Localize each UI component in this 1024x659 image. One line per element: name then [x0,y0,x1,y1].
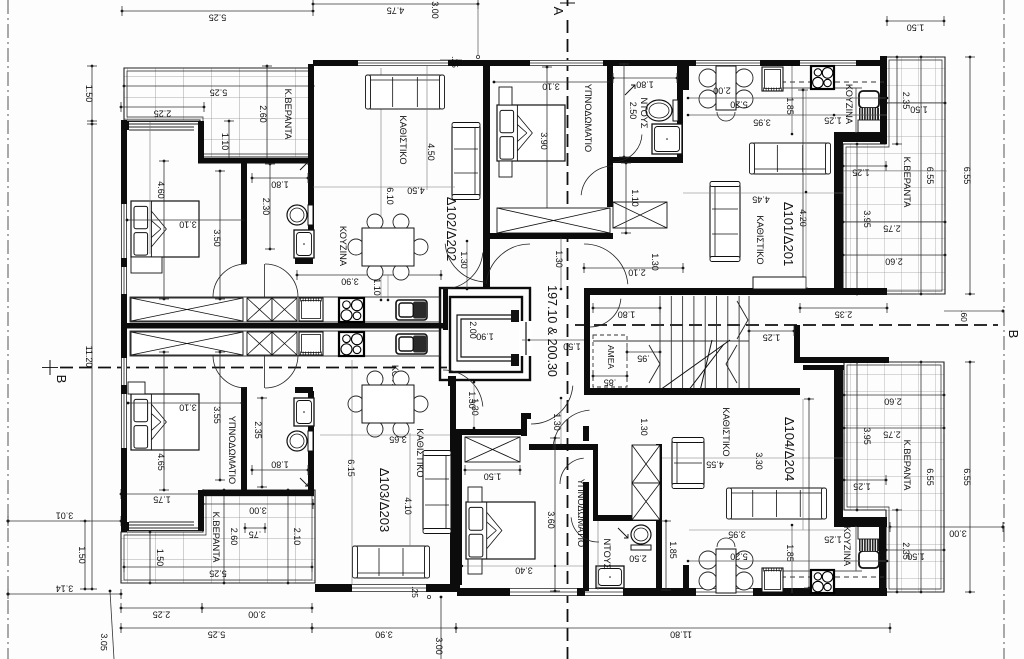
svg-text:6.55: 6.55 [925,468,935,486]
svg-text:3.60: 3.60 [546,511,556,529]
svg-text:1.25: 1.25 [853,482,871,492]
dim 6.55 balcony tr [916,56,935,296]
svg-text:1.50: 1.50 [907,552,925,562]
wall right living D104 [834,370,843,517]
dim 1.80 bath D101 [612,73,679,90]
window top bedroom D101 [530,60,603,66]
dim 5.25 bottom [120,623,314,640]
svg-text:4.55: 4.55 [706,460,724,470]
sofa D101 [750,143,831,174]
svg-text:ΝΤΟΥΣ: ΝΤΟΥΣ [639,97,649,128]
svg-text:2.30: 2.30 [261,198,271,216]
dim 1.50 balcony bottom [145,531,165,585]
window left bedroom bottom [121,394,127,448]
dim 11.80 bottom [455,623,892,640]
wall bath D101 right [677,64,683,163]
wall bottom exterior right part [457,588,887,596]
wall hall D101 vertical [607,163,613,207]
table D101 group [699,69,717,87]
bed D103 [131,394,199,450]
window bedroom D103 top [129,521,194,523]
window bedroom D102 top [129,126,194,128]
wall top exterior [313,60,887,66]
wall top-left wing edge [308,64,314,158]
couch D101 [710,182,740,262]
dim 3.10 bedroom D102 [126,219,246,230]
sink D101 [762,67,783,91]
svg-text:3.14: 3.14 [56,584,74,594]
bed D101 [497,105,565,161]
dim 2.60 balcony br [843,390,946,407]
window bottom D104 c [696,588,753,596]
nightstand D101 a [499,87,512,105]
svg-text:1.75: 1.75 [153,495,171,505]
door arc hall D101 b [584,244,628,284]
dim 6.55 balcony br [916,361,935,594]
svg-text:1.30: 1.30 [459,251,469,269]
wall kitchen D101 left [683,64,689,90]
svg-text:2.75: 2.75 [883,224,901,234]
dim 4.65 bedroom D103 [156,351,169,492]
svg-text:4.20: 4.20 [798,209,808,227]
wall bath D102 right [308,158,314,255]
dim 4.60 bedroom D102 [156,160,169,301]
kitchen counter D104 [762,570,862,572]
svg-text:1.25: 1.25 [824,535,842,545]
svg-text:.25: .25 [410,586,420,598]
nightstand D102 [131,257,162,273]
svg-text:Δ103/Δ203: Δ103/Δ203 [377,468,392,532]
balcony top-left hatch [124,68,313,157]
wall stub bedroom D103 corner [121,522,129,531]
dim 1.25 balcony tr [842,161,888,178]
wall party center to elevator [443,289,448,330]
window left above bed D103 [121,358,127,385]
stove D104 [811,570,834,593]
svg-text:1.80: 1.80 [271,460,289,470]
wall bedroom D104 right stub [583,426,589,441]
svg-text:3.00: 3.00 [430,1,440,19]
dim 6.55 right top [962,56,975,296]
bed D102 [131,201,199,257]
svg-text:B: B [1006,330,1021,339]
dim 6.55 right bottom [962,361,975,594]
door arc bedroom D103 [213,355,246,388]
door arc hall D104 b [553,410,590,450]
wall bedroom D103 bottom/balcony [200,490,313,496]
svg-text:6.55: 6.55 [962,167,972,185]
sink counter D104 [762,568,783,592]
tall cabinet D104 [632,445,660,483]
dim 2.75 balcony tr [842,217,947,234]
sink D104 bath [596,566,624,588]
svg-text:1.50: 1.50 [77,546,87,564]
fridge D101 [858,91,881,133]
dim 1.10 balcony [220,120,234,164]
dim 3.90 bedroom D101 [539,66,552,212]
dim 3.95 balcony br [852,361,872,512]
balcony floor edge D103 [121,530,204,532]
wall party center horizontal [121,323,448,329]
svg-text:1.80: 1.80 [636,80,654,90]
extension line balcony tr [843,170,947,172]
svg-text:1.80: 1.80 [271,180,289,190]
kitchen counter D102 outline [130,297,440,322]
nightstand D104 a [468,487,482,502]
dim 3.50 bedroom D102 [212,170,225,301]
door swing mark D103 bath [300,478,308,486]
table D104 group [699,551,717,569]
svg-text:3.95: 3.95 [862,210,872,228]
dim 2.25 balcony [120,102,206,119]
svg-text:ΚΟΥΖΙΝΑ: ΚΟΥΖΙΝΑ [844,84,854,125]
svg-text:.60: .60 [959,310,969,322]
svg-text:1.30: 1.30 [552,413,562,431]
sink D102 [396,300,427,320]
svg-text:3.10: 3.10 [179,403,197,413]
wall stub bedroom D102 corner [121,121,129,130]
wardrobe D101 [497,208,610,233]
dim 3.10 bedroom D103 [127,402,244,413]
tub D101 bath [652,124,682,154]
svg-text:ΚΑΘΙΣΤΙΚΟ: ΚΑΘΙΣΤΙΚΟ [721,407,731,456]
toilet D101 bath [646,100,678,121]
sink D103 [396,334,427,354]
svg-text:2.25: 2.25 [153,610,171,620]
svg-text:2.35: 2.35 [901,92,911,110]
sofa D103 [353,546,430,578]
entry mat D101 [753,277,806,289]
couch D102 right [452,123,480,200]
svg-text:3.01: 3.01 [56,511,74,521]
wall bedroom D101 right [607,64,613,163]
extension line D103 four10 [409,433,411,546]
dim 4.20 living D101 [798,89,808,290]
wall bath D103 top partial [295,387,313,393]
window left bedroom top [121,204,127,258]
svg-text:3.95: 3.95 [862,427,872,445]
dim 1.50 left bottom [77,520,90,591]
dim 3.05 left bottom [99,590,114,659]
wall step balcony D102 [198,121,204,162]
dim 1.50 top right [886,16,946,33]
wardrobe hall D101 [613,202,667,228]
window top kitchen D101 [696,60,760,66]
dim 3.90 bottom [311,623,458,640]
dim 1.85 bath D104 [661,520,678,592]
wall kitchen D104 left [683,565,689,591]
dim 5.25 balcony bottom [123,562,314,579]
svg-text:ΚΟΥΖΙΝΑ: ΚΟΥΖΙΝΑ [338,226,348,267]
svg-text:2.50: 2.50 [629,554,647,564]
svg-text:Δ101/Δ201: Δ101/Δ201 [781,202,796,266]
svg-text:3.00: 3.00 [434,637,444,655]
armchair D104 [672,438,704,489]
svg-text:2.25: 2.25 [154,109,172,119]
wall step balcony D103 [198,490,204,531]
svg-text:2.75: 2.75 [883,430,901,440]
svg-text:6.15: 6.15 [346,459,356,477]
dim 1.80 stairs [592,303,662,320]
svg-text:1.25: 1.25 [824,116,842,126]
door arc bath D104 [571,517,599,542]
dim 2.60 balcony bottom [219,489,239,585]
dim .95 stairs [626,347,662,364]
wardrobe D104 [465,437,520,462]
svg-text:3.65: 3.65 [389,435,407,445]
dim 3.10 bedroom D101 [493,81,612,92]
dim 3.14 left [7,584,123,600]
door arc corridor D102 b [443,252,483,289]
svg-text:2.60: 2.60 [884,397,902,407]
wall bedroom D104 left [456,429,462,585]
toilet D104 bath [631,525,651,550]
svg-text:ΝΤΟΥΣ: ΝΤΟΥΣ [602,538,612,569]
svg-text:1.90: 1.90 [476,332,494,342]
kitchen counter D103 outline [130,331,440,356]
wall stair landing right [794,325,800,363]
dim 4.75 top [312,0,480,16]
svg-text:4.10: 4.10 [403,497,413,515]
svg-text:1.85: 1.85 [785,97,795,115]
svg-text:1.10: 1.10 [220,133,230,151]
dim 1.25 balcony br [843,475,888,492]
wall bath D103 right [308,391,314,496]
dim 3.00 bottom [201,603,314,620]
dim 11.20 left [84,123,97,591]
dishwasher D102 [299,298,323,321]
svg-text:1.85: 1.85 [785,544,795,562]
door swing mark D101 bath [625,85,635,95]
dim 1.75 bottom-left [120,489,205,505]
stove D103 [339,332,364,356]
window bottom living D103 [352,584,426,592]
svg-text:2.60: 2.60 [258,105,268,123]
extension line D102 bed [149,122,151,254]
nightstand D101 b [499,161,512,177]
dim 3.60 bedroom D104 [546,437,560,593]
wall bath D104 top [593,515,662,521]
fridge D104 [858,526,881,568]
svg-text:5.25: 5.25 [208,630,226,640]
dim 2.60 balcony tr [842,250,947,267]
svg-text:ΚΑΘΙΣΤΙΚΟ: ΚΑΘΙΣΤΙΚΟ [415,428,425,477]
dim .85 stairs [592,371,629,388]
wall bath D104 right [656,444,662,590]
svg-text:1.25: 1.25 [763,333,781,343]
dim 1.50 balcony br [885,545,946,562]
dim 1.25 stairs landing [748,326,796,343]
door swing mark D102 bath [300,162,308,170]
door arc bath D102 [265,264,298,297]
svg-text:3.90: 3.90 [341,277,359,287]
door arc bath D101 [613,135,642,162]
extension line D103 six15 [351,360,353,585]
dim 2.10 balcony bottom [283,489,302,585]
couch D103 [423,451,451,534]
staircase winder marks [649,301,748,383]
svg-text:Κ.ΒΕΡΑΝΤΑ: Κ.ΒΕΡΑΝΤΑ [283,89,293,141]
door arc bedroom D101 [581,166,613,195]
svg-text:3.90: 3.90 [539,132,549,150]
svg-text:11.20: 11.20 [84,346,94,368]
svg-text:11.80: 11.80 [670,630,692,640]
svg-text:2.00: 2.00 [713,86,731,96]
svg-text:2.60: 2.60 [229,528,239,546]
stove D101 [811,66,834,89]
table D103 group [362,385,414,423]
svg-text:3.10: 3.10 [179,220,197,230]
svg-text:1.85: 1.85 [668,541,678,559]
svg-text:1.30: 1.30 [467,391,477,409]
nightstand D104 b [468,559,482,574]
dim 3.00 balcony bottom [202,499,315,516]
elevator shaft [440,288,532,380]
svg-text:3.95: 3.95 [753,118,771,128]
svg-text:1.10: 1.10 [630,189,640,207]
dishwasher D103 [299,332,323,355]
wall stair bottom [584,388,800,395]
property line left [7,0,9,659]
wall D104 entry jog [803,365,844,370]
wall bedroom-bath divider D102 [241,161,247,264]
dim 4.55 vert D104 [804,398,814,590]
svg-text:2.60: 2.60 [885,257,903,267]
dim 3.95 balcony tr [852,143,872,296]
balcony bottom-right hatch [844,362,944,592]
wall bedroom D104 top [456,429,527,435]
svg-text:3.00: 3.00 [248,610,266,620]
balcony bottom-left hatch [121,490,315,583]
dim 2.35 bath D103 [253,397,267,489]
wall right exterior top [880,56,887,144]
wall under balcony D102 [198,158,313,164]
dim 3.00 right [889,522,1005,539]
wall bottom D101 / stair top [584,288,887,295]
svg-text:1.50: 1.50 [84,85,94,103]
svg-text:1.50: 1.50 [907,23,925,33]
wall left exterior [121,120,127,532]
svg-text:3.55: 3.55 [212,406,222,424]
svg-text:1.80: 1.80 [618,310,636,320]
dim 1.10 hall D101 [621,162,640,235]
window left below bed D102 [121,267,127,294]
dim 3.55 bedroom D103 [212,351,225,482]
svg-text:Κ.ΒΕΡΑΝΤΑ: Κ.ΒΕΡΑΝΤΑ [902,440,912,492]
svg-text:1.50: 1.50 [910,105,928,115]
svg-text:2.10: 2.10 [628,268,646,278]
svg-text:3.00: 3.00 [249,506,267,516]
wall D104 north [529,444,593,450]
svg-text:4.50: 4.50 [426,143,436,161]
svg-text:5.25: 5.25 [210,88,228,98]
cabinet XX D103 [247,332,272,355]
dim 2.30 bath D102 [261,163,275,251]
svg-text:Κ.ΒΕΡΑΝΤΑ: Κ.ΒΕΡΑΝΤΑ [902,157,912,209]
svg-text:ΚΑΘΙΣΤΙΚΟ: ΚΑΘΙΣΤΙΚΟ [755,215,765,264]
svg-text:1.50: 1.50 [155,549,165,567]
wall stair left [584,288,590,395]
svg-text:B: B [54,375,69,384]
svg-text:1.50: 1.50 [563,342,581,352]
wall bath D102 bottom partial [295,258,313,264]
wall D102-D101 separation [483,64,490,289]
wardrobe X D102 [131,298,243,321]
property line dots [7,520,10,523]
svg-text:.95: .95 [637,354,650,364]
svg-text:4.45: 4.45 [752,195,770,205]
svg-text:5.25: 5.25 [209,13,227,23]
svg-text:6.55: 6.55 [925,167,935,185]
door arc hall D101 a [486,244,530,284]
cabinet XX D102 [247,298,272,321]
dim 2.35 balcony tr [892,56,911,146]
dim 2.60 balcony [258,65,272,164]
dim 1.50 left top [84,65,97,123]
svg-text:A: A [551,7,566,16]
dim 2.50 bath D101 [619,63,638,159]
svg-text:1.50: 1.50 [484,472,502,482]
table D102 group [362,228,414,266]
nightstand D103 [128,382,145,394]
stove D102 [339,298,364,322]
svg-text:3.10: 3.10 [542,82,560,92]
axis B left [42,360,447,383]
sofa D104 [727,488,827,519]
svg-text:3.90: 3.90 [375,630,393,640]
wall stair right jog [794,357,889,363]
svg-text:1.30: 1.30 [554,250,564,268]
svg-text:.75: .75 [249,530,262,540]
wall corridor D104 jog [521,413,531,419]
wall bedroom D104 right [583,482,589,591]
wall bedroom D101 bottom [487,233,613,239]
sofa D102 top [366,75,445,109]
property line right [1003,0,1005,659]
door arc hall D104 a [531,386,573,424]
svg-text:3.50: 3.50 [212,229,222,247]
toilet D103 bath [287,431,313,451]
svg-text:197.10 & 200.30: 197.10 & 200.30 [545,285,559,377]
dim 2.25 bottom [120,603,204,620]
sink D103 bath [294,398,314,426]
extension line D101 sofa [805,90,807,288]
dim 5.25 balcony [123,81,315,98]
wall bath D101 bottom [607,157,683,163]
axis A vertical [551,0,575,659]
AMEA dashed zone [593,335,627,387]
door arc entry D101 [590,299,621,327]
balcony floor edge D102 [121,121,204,123]
dim 1.50 wardrobe D104 [464,465,522,482]
wall right exterior bottom [879,525,886,596]
door arc bath D103 [265,355,298,388]
extension lines kitchen [380,68,382,300]
svg-text:4.75: 4.75 [387,6,405,16]
extension line D104 [802,399,804,530]
svg-text:3.40: 3.40 [515,566,533,576]
dim 2.35 balcony br [892,509,911,594]
dim 2.35 corridor D101 [799,303,889,320]
window bottom D104 b [585,588,623,596]
wardrobe X D103 [131,332,243,355]
extension line top right [477,4,479,55]
dim 5.25 top [121,6,315,23]
door arc corridor D103 [443,370,483,407]
sink D102 bath [294,230,314,258]
door arc bedroom D102 [213,264,246,297]
wall step right bottom [834,517,887,527]
